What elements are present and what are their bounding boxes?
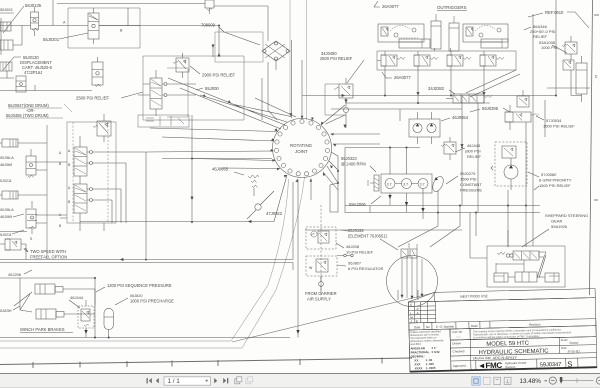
wire y6 down at 268 <box>214 6 268 41</box>
svg-text:MODEL 59 HTC: MODEL 59 HTC <box>486 341 530 348</box>
label 47J0022 <box>247 191 283 219</box>
svg-text:TWO SPEED WITH: TWO SPEED WITH <box>30 249 66 254</box>
engine hatch block <box>368 175 379 191</box>
label REF.0610 <box>528 10 589 28</box>
svg-text:B: B <box>59 162 62 166</box>
svg-text:59J0279: 59J0279 <box>460 171 476 176</box>
svg-text:FREEFALL OPTION: FREEFALL OPTION <box>30 255 67 260</box>
label 46J0654 <box>441 115 469 121</box>
triple pump 59A2006 <box>381 174 432 193</box>
svg-text:46J0655: 46J0655 <box>212 167 229 172</box>
svg-text:SHEPPARD STEERING: SHEPPARD STEERING <box>545 213 588 218</box>
svg-text:W: W <box>309 266 313 270</box>
label outriggers <box>437 5 467 11</box>
svg-text:FROM CARRIER: FROM CARRIER <box>305 291 337 296</box>
wire left bus y90 <box>0 26 92 91</box>
svg-text:59A2006: 59A2006 <box>349 202 366 207</box>
svg-text:55J0323: 55J0323 <box>341 156 357 161</box>
zoom out button <box>549 377 556 384</box>
valve 59J0295 <box>505 105 539 132</box>
outrigger valve 1 <box>377 51 405 70</box>
svg-text:55J000: 55J000 <box>205 86 219 91</box>
valve 58J0135 <box>31 7 39 36</box>
return bus lines <box>345 190 540 247</box>
outrigger horizontal cylinder left <box>399 39 430 48</box>
svg-text:WINCH PARK BRAKES: WINCH PARK BRAKES <box>20 327 65 332</box>
outrigger pilot block left <box>378 24 424 42</box>
relief valve 86A346 <box>562 36 577 60</box>
svg-text:E. O. Number: E. O. Number <box>436 324 454 328</box>
svg-text:Date: Date <box>414 325 421 329</box>
pump pair 46J0654 <box>409 112 440 144</box>
svg-text:13.48%: 13.48% <box>520 378 542 385</box>
air line fittings <box>319 254 354 295</box>
vertical wires to joint top <box>291 40 293 118</box>
svg-text:57J0534: 57J0534 <box>546 118 562 123</box>
svg-text:46J0654: 46J0654 <box>452 115 469 120</box>
svg-text:46J069: 46J069 <box>0 215 12 219</box>
sequence valve 46J444 <box>78 300 94 328</box>
underline drums label <box>6 104 72 118</box>
unit wt cell <box>450 329 470 340</box>
svg-text:Unit/ Wt.: Unit/ Wt. <box>452 330 463 334</box>
svg-text:c: c <box>595 74 598 80</box>
check valve box <box>215 32 263 62</box>
next prod use strip <box>434 289 595 302</box>
label 56J0047 drums <box>6 103 49 118</box>
air regulator box 56J807 <box>306 256 337 276</box>
svg-text:3.7: 3.7 <box>387 182 392 186</box>
breather comp top <box>205 0 214 14</box>
next page button <box>214 378 217 383</box>
pilot arrows pair <box>212 44 221 57</box>
right side wires <box>520 0 590 97</box>
outrigger horizontal cylinder right <box>481 39 508 48</box>
svg-text:26A0077: 26A0077 <box>382 4 399 9</box>
top bus wires <box>57 4 220 45</box>
wire joint to pump top <box>331 109 462 121</box>
previous view icon <box>235 377 242 384</box>
vertical wire x146 <box>145 152 147 258</box>
two speed select valve <box>0 239 26 250</box>
wire bank1 ports <box>138 84 196 95</box>
wire joint top verticals <box>301 60 303 119</box>
label sheppard steering <box>545 213 588 229</box>
air supply wire down <box>320 276 322 288</box>
svg-text:45J206: 45J206 <box>8 272 22 277</box>
right column wires <box>461 96 545 227</box>
label 59J0279 <box>460 171 482 193</box>
long vertical wire x533 <box>532 14 534 246</box>
svg-text:8-05-81: 8-05-81 <box>568 349 580 353</box>
svg-text:.XXXX: .XXXX <box>414 366 423 370</box>
svg-text:Dash: Dash <box>471 324 478 328</box>
fit visible icon <box>504 377 511 384</box>
svg-text:57J0580: 57J0580 <box>541 172 557 177</box>
svg-text:A: A <box>68 149 71 153</box>
label 55J0201 upper <box>43 33 88 42</box>
revision mini table <box>408 301 435 323</box>
outrigger valve 3 <box>447 51 471 70</box>
valve 55J0201 lower <box>92 57 103 87</box>
winch valve bank2 enclosure <box>67 122 116 223</box>
svg-text:46J444: 46J444 <box>70 295 84 300</box>
previous page button <box>156 378 159 383</box>
vertical wire x262 <box>261 78 263 120</box>
outrigger valve 2 <box>414 51 438 70</box>
steering gear assembly <box>487 246 565 287</box>
label 46J0655 <box>212 167 244 176</box>
svg-text:3.7: 3.7 <box>420 182 425 186</box>
winch bank inner box <box>167 68 188 117</box>
valve small above 59J0295 <box>517 90 529 107</box>
first page button <box>147 378 152 383</box>
svg-text:55J0201: 55J0201 <box>43 37 60 42</box>
leader 55J0323 <box>370 166 376 172</box>
svg-text:◄FMC: ◄FMC <box>478 361 503 371</box>
relief valve bank2 <box>93 114 111 142</box>
label 34J0382 <box>428 86 455 94</box>
svg-text:10 PSI RELIEF: 10 PSI RELIEF <box>346 250 374 255</box>
diagonal wire arrowheads <box>203 94 231 103</box>
label 55J0192 <box>348 228 387 239</box>
label 34J0480 relief <box>320 51 353 61</box>
actual size icon <box>494 377 501 384</box>
outrigger cylinders center <box>431 14 459 51</box>
joint inflow arrowheads <box>270 113 336 182</box>
air relief box 46J208 <box>306 227 336 249</box>
svg-text:26A0077: 26A0077 <box>394 75 411 80</box>
svg-text:B: B <box>120 29 123 33</box>
svg-text:----: ---- <box>456 335 461 339</box>
drawn row <box>450 326 597 371</box>
brake cylinder 1 <box>35 284 95 294</box>
enclosure top-left <box>68 8 140 48</box>
relief valve 46J443 <box>441 137 456 160</box>
label 06J820 precharge <box>130 294 174 304</box>
sheet right border <box>590 0 593 295</box>
brake leaders <box>14 292 32 312</box>
svg-text:1200 PSI SEQUENCE PRESSURE: 1200 PSI SEQUENCE PRESSURE <box>107 283 172 288</box>
svg-text:1000 PSI: 1000 PSI <box>541 45 557 50</box>
outrigger valve 4 <box>480 51 504 70</box>
fit width icon selected <box>472 377 480 385</box>
bank2 bottom wires <box>60 218 104 231</box>
svg-text:1500 PSI RELIEF: 1500 PSI RELIEF <box>539 183 571 188</box>
label 57J0534 <box>543 118 575 129</box>
bus junction arrowheads <box>120 92 486 261</box>
breather valve on tank <box>401 243 417 258</box>
last page button <box>223 378 228 383</box>
svg-text:46J069: 46J069 <box>0 163 12 167</box>
svg-text:5J0211: 5J0211 <box>0 179 12 183</box>
svg-text:3.7: 3.7 <box>403 182 408 186</box>
leader 86A346 <box>524 27 567 53</box>
svg-text:2500 PSI RELIEF: 2500 PSI RELIEF <box>320 56 353 61</box>
svg-text:PRESSURE: PRESSURE <box>460 188 482 193</box>
wire bus y259 <box>0 244 293 270</box>
svg-text:(ELEMENT 76J0651): (ELEMENT 76J0651) <box>348 234 387 239</box>
svg-text:B: B <box>68 163 71 167</box>
svg-text:8 GPM PRIORITY: 8 GPM PRIORITY <box>539 178 572 183</box>
svg-text:Approved: Approved <box>453 364 466 368</box>
svg-text:E: E <box>416 319 418 323</box>
relief valve 34J0480 <box>325 78 353 128</box>
coil component left <box>0 139 18 147</box>
svg-text:Division: Division <box>505 365 516 369</box>
svg-text:S: S <box>30 237 33 241</box>
svg-text:6 PSI REGULATOR: 6 PSI REGULATOR <box>348 266 384 271</box>
tolerance block <box>409 329 451 372</box>
svg-text:2900 PSI RELIEF: 2900 PSI RELIEF <box>202 73 235 78</box>
label 58J0135 <box>3 3 42 33</box>
svg-text:Drawn: Drawn <box>452 341 461 345</box>
svg-text:46J443: 46J443 <box>467 143 481 148</box>
leader 46J208 <box>336 243 344 248</box>
labels 86A346 relief <box>530 24 557 50</box>
label 46J444 <box>69 295 84 308</box>
label 55J000 <box>196 86 219 91</box>
caret <box>545 380 548 382</box>
label 56J807 <box>348 261 384 272</box>
sheet bottom edge <box>0 358 412 365</box>
label 59A2006 <box>349 196 381 207</box>
svg-text:Checked: Checked <box>452 349 464 353</box>
label 59J0295 <box>470 106 510 112</box>
port wires bank2 <box>93 152 147 223</box>
right border tick marks <box>594 15 599 200</box>
svg-text:GEAR: GEAR <box>551 219 562 224</box>
spool valve bank2b <box>68 184 93 223</box>
zoom slider track <box>560 380 594 382</box>
svg-text:Effective With: Effective With <box>473 356 492 360</box>
leader 34J0480 <box>347 60 364 83</box>
svg-text:00J96-A: 00J96-A <box>0 156 14 160</box>
steering feed wires <box>305 213 526 259</box>
svg-text:± .0005: ± .0005 <box>426 366 436 370</box>
svg-text:B: B <box>59 224 62 228</box>
svg-text:Date: Date <box>561 346 567 350</box>
svg-text:59J0295: 59J0295 <box>482 106 499 111</box>
accumulator 06J820 <box>104 308 113 337</box>
leader 56J807 <box>337 265 346 266</box>
tank outlet wires <box>398 226 460 300</box>
svg-text:JOINT: JOINT <box>295 149 308 154</box>
svg-text:± 1/32: ± 1/32 <box>431 350 439 354</box>
svg-text:CONSTANT: CONSTANT <box>460 182 482 187</box>
svg-text:58J0135: 58J0135 <box>25 3 42 8</box>
svg-text:No: No <box>426 325 430 329</box>
svg-text:ROTATING: ROTATING <box>290 143 313 148</box>
wires out joint right <box>321 105 380 170</box>
air supply dashed drop <box>320 205 322 290</box>
sheet bottom shallow border to title block <box>232 292 437 342</box>
svg-text:00J96-A: 00J96-A <box>0 208 14 212</box>
svg-text:46J208: 46J208 <box>346 244 360 249</box>
svg-text:RELIEF: RELIEF <box>467 154 482 159</box>
svg-text:56J0455 (TWO DRUM): 56J0455 (TWO DRUM) <box>6 113 49 118</box>
svg-text:NEXT PROD USE: NEXT PROD USE <box>460 294 488 299</box>
unit1 port wires <box>18 143 67 223</box>
svg-text:REF.0610: REF.0610 <box>545 10 564 15</box>
label 5J83H <box>0 306 20 313</box>
label 57J0580 <box>539 172 572 188</box>
leader 55J0192 <box>341 230 398 250</box>
svg-text:OUTRIGGERS: OUTRIGGERS <box>437 5 467 10</box>
tilted pump <box>431 175 446 193</box>
brake feed bus y278 <box>0 277 96 310</box>
svg-text:06J820: 06J820 <box>130 294 142 298</box>
svg-text:A: A <box>63 21 66 25</box>
tolerance text <box>410 329 444 346</box>
valve 53A1008 <box>563 60 574 70</box>
svg-text:55J0192: 55J0192 <box>348 228 364 233</box>
pump suction bus <box>302 96 420 194</box>
svg-text:47J2P16J: 47J2P16J <box>24 70 42 75</box>
svg-text:RELIEF: RELIEF <box>533 34 548 39</box>
zone tick marks <box>33 358 382 369</box>
label 46J069 <box>0 214 24 219</box>
next view icon (disabled) <box>246 377 253 384</box>
winch valve bank upper enclosure <box>143 56 244 120</box>
wire bus y232 <box>0 231 27 233</box>
leader steering <box>522 229 549 247</box>
page number box <box>164 377 211 385</box>
svg-text:AIR SUPPLY: AIR SUPPLY <box>307 297 331 302</box>
priority valve 57J0580 <box>491 142 527 190</box>
svg-text:1 / 1: 1 / 1 <box>168 378 181 385</box>
leader 46J443 <box>455 148 465 152</box>
left edge comp 2 <box>0 26 22 51</box>
valve 55J0201 upper <box>88 8 99 44</box>
component far-left mid <box>0 62 14 78</box>
long wire y158 <box>162 158 272 160</box>
coil component left2 <box>0 191 18 199</box>
label 2900 psi relief <box>190 66 235 78</box>
hydraulic tank <box>387 256 438 307</box>
label 46J208 <box>346 244 374 255</box>
copyright cell <box>470 326 596 340</box>
long wire y221 <box>80 221 274 223</box>
svg-text:B: B <box>68 200 71 204</box>
label 1200 psi sequence <box>96 283 172 292</box>
label 55J0323 <box>341 156 366 167</box>
label from carrier air supply <box>305 291 337 302</box>
diagonal wires into joint from NW <box>168 78 296 129</box>
valve left mid <box>26 149 36 178</box>
spool valve bank1 <box>150 70 167 116</box>
leader precharge <box>115 298 128 305</box>
leader 59J0279 <box>446 176 458 184</box>
revision header row <box>409 319 596 330</box>
joint to pump suction wires <box>323 156 339 213</box>
leader two speed <box>24 249 28 253</box>
outrigger valve row enclosure <box>377 51 516 70</box>
leader 57J0580 <box>528 172 539 190</box>
spring symbol 46J0655 <box>248 175 259 196</box>
outrigger bus wires <box>345 48 520 104</box>
valve two speed <box>26 201 37 241</box>
outrigger pilot block right <box>463 24 508 42</box>
copyright text <box>473 328 572 339</box>
svg-text:1000 PSI PRECHARGE: 1000 PSI PRECHARGE <box>130 299 174 304</box>
cylinder right edge <box>576 56 587 102</box>
fit page icon <box>483 377 490 384</box>
label 46J443 relief <box>465 143 482 159</box>
label 26A0077 bottom <box>382 72 411 80</box>
svg-text:S: S <box>567 360 572 369</box>
spool valve bank2a <box>68 136 93 184</box>
brake cylinder 2 <box>36 289 95 338</box>
svg-text:59A1926: 59A1926 <box>551 224 568 229</box>
svg-text:ADC-N-40%1Y: ADC-N-40%1Y <box>493 356 518 361</box>
label J0211 <box>0 230 24 237</box>
svg-text:55J003: 55J003 <box>0 8 12 12</box>
wire bundle outriggers to bus <box>466 70 520 97</box>
left vertical bus x47 <box>47 125 62 258</box>
label displacement cart <box>20 55 53 75</box>
svg-text:47J0022: 47J0022 <box>266 211 283 216</box>
svg-text:A: A <box>59 151 62 155</box>
title block outer <box>408 298 597 372</box>
pump outlet wires <box>388 189 438 227</box>
zoom slider handle <box>560 377 563 384</box>
svg-text:1500 PSI: 1500 PSI <box>460 177 476 182</box>
svg-text:56J807: 56J807 <box>348 261 362 266</box>
svg-text:5J0211: 5J0211 <box>0 233 12 237</box>
sheet fold edge curve <box>231 0 307 348</box>
wires into joint left <box>146 62 287 222</box>
vertical wire x192 <box>191 115 193 223</box>
label two speed <box>30 249 67 260</box>
svg-text:Scale: Scale <box>561 338 569 342</box>
brake bottom bus <box>0 328 300 339</box>
svg-text:None: None <box>569 341 578 345</box>
left mid labels unit1 <box>0 156 14 183</box>
bottom heavy rule <box>410 367 597 371</box>
svg-text:708009: 708009 <box>201 23 216 28</box>
label 45J206 <box>8 270 32 277</box>
svg-text:5J83H: 5J83H <box>0 308 12 313</box>
rotating joint <box>273 119 332 178</box>
label 708009 <box>201 23 260 46</box>
svg-text:59J0347: 59J0347 <box>540 362 562 369</box>
leader displacement <box>3 57 21 70</box>
leader 57J0534 <box>536 116 544 120</box>
svg-text:1500 PSI RELIEF: 1500 PSI RELIEF <box>543 124 575 129</box>
label winch park brakes <box>20 327 73 333</box>
label 00J96 <box>0 208 14 212</box>
left edge valve y80 <box>16 76 26 92</box>
label 26A0077 top <box>374 1 399 9</box>
left edge valve top <box>0 8 14 31</box>
svg-text:Revision: Revision <box>529 322 541 326</box>
valve 34J0382 <box>446 94 492 103</box>
svg-text:34J0382: 34J0382 <box>428 86 445 91</box>
wire A top-left <box>1 0 88 55</box>
svg-text:2500 PSI RELIEF: 2500 PSI RELIEF <box>76 96 109 101</box>
label 2500 psi relief <box>76 92 143 101</box>
check valve diamond <box>262 41 290 70</box>
enclosure mid right <box>138 115 189 127</box>
relief valve top of bank <box>173 53 189 78</box>
wires joint bottom <box>293 179 311 338</box>
approved row seps <box>476 358 578 370</box>
svg-text:A: A <box>68 186 71 190</box>
sheet inner border bottom <box>0 341 242 348</box>
zoom in button (cut off) <box>596 377 600 384</box>
